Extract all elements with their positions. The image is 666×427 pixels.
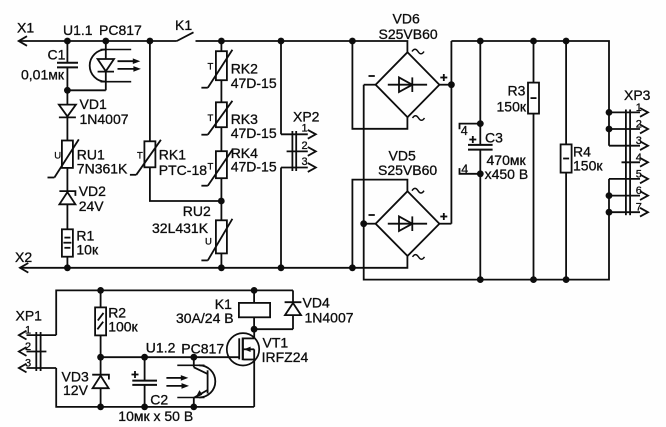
svg-text:100к: 100к bbox=[108, 319, 138, 335]
node: R4 minus bus junction bbox=[563, 276, 570, 283]
thermistor RK4 bbox=[201, 127, 232, 186]
node: LED anode junction bbox=[102, 38, 109, 45]
node X2 arrow bbox=[20, 263, 28, 273]
varistor RU1 bbox=[48, 139, 79, 177]
thermistor RK1 bbox=[130, 41, 221, 201]
svg-text:2: 2 bbox=[636, 119, 642, 131]
svg-text:1: 1 bbox=[302, 123, 308, 135]
wire: VD6 minus to VD5 minus bbox=[364, 85, 376, 224]
connector XP1 bbox=[19, 331, 56, 373]
svg-text:C1: C1 bbox=[48, 47, 66, 63]
transistor VT1 IRFZ24 bbox=[227, 329, 259, 407]
svg-text:VD5: VD5 bbox=[389, 148, 416, 164]
svg-text:47D-15: 47D-15 bbox=[231, 75, 277, 91]
svg-text:6: 6 bbox=[636, 185, 642, 197]
svg-text:VD4: VD4 bbox=[303, 295, 330, 311]
svg-text:2: 2 bbox=[25, 341, 31, 353]
wire: RK4 to RU2 node bbox=[220, 178, 222, 220]
node: emitter bottom rail junction bbox=[190, 404, 197, 411]
svg-text:4: 4 bbox=[636, 152, 642, 164]
svg-text:S25VB60: S25VB60 bbox=[379, 26, 438, 42]
svg-text:PC817: PC817 bbox=[181, 341, 224, 357]
svg-text:U1.1: U1.1 bbox=[63, 22, 93, 38]
connector XP3 bbox=[609, 108, 648, 217]
node: VD6 bypass junction bbox=[349, 38, 356, 45]
svg-text:C2: C2 bbox=[150, 392, 168, 408]
node: R1 bottom rail junction bbox=[64, 264, 71, 271]
svg-text:1N4007: 1N4007 bbox=[305, 310, 354, 326]
node: C3 top rail junction bbox=[477, 38, 484, 45]
node: XP3 pin1 junction bbox=[606, 109, 613, 116]
svg-text:U: U bbox=[54, 151, 61, 162]
svg-text:3: 3 bbox=[636, 135, 642, 147]
wire: top mains rail left segment (X1 to K1) bbox=[19, 40, 177, 42]
svg-text:1: 1 bbox=[636, 102, 642, 114]
svg-text:PTC-18: PTC-18 bbox=[159, 162, 207, 178]
svg-text:7N361K: 7N361K bbox=[77, 161, 128, 177]
svg-text:PC817: PC817 bbox=[99, 22, 142, 38]
svg-text:1: 1 bbox=[25, 325, 31, 337]
bridge rectifier VD5 bbox=[369, 188, 448, 259]
switch K1 blade bbox=[177, 32, 194, 41]
node: XP2 bottom rail junction bbox=[278, 264, 285, 271]
wire: VD6 plus stub bbox=[439, 84, 451, 86]
resistor R2 bbox=[95, 290, 106, 357]
wire: VD5 plus stub bbox=[439, 223, 451, 225]
svg-text:T: T bbox=[137, 151, 143, 162]
connector XP3 pin numbers bbox=[636, 102, 642, 214]
node: C1 top junction bbox=[64, 38, 71, 45]
node: R3 top rail junction bbox=[530, 38, 537, 45]
wire: minus bus bbox=[364, 179, 609, 280]
svg-text:T: T bbox=[208, 162, 214, 173]
varistor RU2 bbox=[201, 219, 232, 268]
svg-text:10мк x 50 В: 10мк x 50 В bbox=[118, 408, 193, 424]
svg-text:U: U bbox=[205, 237, 212, 248]
node: RK4-RU2 junction bbox=[218, 198, 225, 205]
wire: RU1 to VD2 bbox=[66, 168, 68, 191]
node: XP3 pin2 junction bbox=[606, 126, 613, 133]
connector XP1 pin numbers bbox=[25, 325, 31, 370]
relay coil K1 bbox=[239, 290, 270, 329]
svg-text:S25VB60: S25VB60 bbox=[378, 162, 437, 178]
svg-text:150к: 150к bbox=[573, 158, 603, 174]
zener diode VD2 bbox=[59, 191, 75, 229]
node: RK2 top junction bbox=[218, 38, 225, 45]
svg-text:5: 5 bbox=[636, 168, 642, 180]
diode VD1 bbox=[59, 90, 76, 140]
wire: bottom mains rail (X2) bbox=[20, 256, 408, 268]
svg-text:IRFZ24: IRFZ24 bbox=[262, 349, 309, 365]
node: C2 bottom rail junction bbox=[141, 404, 148, 411]
svg-text:VD6: VD6 bbox=[393, 11, 420, 27]
wire: mains L bypass to VD6 bottom AC terminal bbox=[352, 41, 407, 129]
node: R4 top rail junction bbox=[563, 38, 570, 45]
node: R2-VD3 gate junction bbox=[97, 354, 104, 361]
wire: mains N branch to VD5 top AC terminal bbox=[352, 180, 407, 268]
node: C1 bottom junction bbox=[64, 87, 71, 94]
node: XP3 pin7 junction bbox=[606, 209, 613, 216]
thermistor RK3 bbox=[201, 80, 232, 135]
resistor R3 bbox=[528, 41, 539, 280]
node: XP2 top junction bbox=[278, 38, 285, 45]
wire: plus bus vertical bbox=[450, 41, 452, 224]
node: relay-VD4-drain junction bbox=[251, 326, 258, 333]
node: C3 minus bus junction bbox=[477, 276, 484, 283]
svg-text:2: 2 bbox=[302, 140, 308, 152]
svg-text:12V: 12V bbox=[63, 382, 89, 398]
node: VD5 minus junction bbox=[360, 220, 367, 227]
connector XP2 bbox=[281, 41, 316, 268]
svg-text:47D-15: 47D-15 bbox=[231, 159, 277, 175]
node: C2 top junction bbox=[141, 354, 148, 361]
svg-text:C3: C3 bbox=[485, 130, 503, 146]
wire: gate node line bbox=[101, 356, 240, 358]
node: RK1 top junction bbox=[147, 38, 154, 45]
svg-text:XP3: XP3 bbox=[624, 87, 651, 103]
node: RU2 bottom rail junction bbox=[218, 264, 225, 271]
svg-text:1N4007: 1N4007 bbox=[80, 111, 129, 127]
node: VD5 AC rail junction bbox=[349, 264, 356, 271]
zener diode VD3 bbox=[92, 357, 109, 407]
svg-text:7: 7 bbox=[636, 202, 642, 214]
svg-text:10к: 10к bbox=[76, 242, 99, 258]
node: phototransistor collector junction bbox=[190, 354, 197, 361]
svg-text:U1.2: U1.2 bbox=[146, 340, 176, 356]
resistor R1 bbox=[62, 229, 73, 267]
capacitor C1 bbox=[57, 41, 78, 90]
resistor R4 bbox=[561, 41, 572, 280]
svg-text:3: 3 bbox=[25, 357, 31, 369]
svg-text:XP1: XP1 bbox=[16, 308, 43, 324]
svg-text:32L431K: 32L431K bbox=[152, 220, 209, 236]
svg-text:K1: K1 bbox=[175, 17, 192, 33]
wire: VD5 minus stub bbox=[364, 223, 376, 225]
wire: plus rail to XP3 bbox=[451, 41, 609, 146]
svg-text:3: 3 bbox=[302, 156, 308, 168]
thermistor RK2 bbox=[201, 41, 232, 88]
svg-text:RU2: RU2 bbox=[183, 203, 211, 219]
svg-text:X2: X2 bbox=[15, 249, 32, 265]
optocoupler U1.1 PC817 LED side bbox=[90, 41, 141, 90]
node: VD3 bottom rail junction bbox=[97, 404, 104, 411]
svg-text:VD1: VD1 bbox=[80, 96, 107, 112]
wire: top mains rail right of K1 to VD6 top bbox=[196, 41, 408, 52]
bridge rectifier VD6 bbox=[369, 49, 448, 120]
svg-text:24V: 24V bbox=[79, 198, 105, 214]
optocoupler U1.2 PC817 phototransistor side bbox=[166, 357, 215, 407]
node: R2 top junction bbox=[97, 287, 104, 294]
svg-text:T: T bbox=[208, 113, 214, 124]
svg-text:х450 В: х450 В bbox=[485, 166, 529, 182]
wire: relay bottom to VD4 bbox=[254, 328, 293, 330]
wire: XP1 pin1 riser and relay supply rail bbox=[56, 290, 293, 335]
svg-text:T: T bbox=[208, 62, 214, 73]
node: VD6 plus junction bbox=[448, 81, 455, 88]
svg-text:30A/24 В: 30A/24 В bbox=[176, 310, 234, 326]
wire: XP1 pin3 riser and lower ground rail bbox=[56, 368, 254, 407]
svg-text:VD2: VD2 bbox=[79, 183, 106, 199]
diode VD4 bbox=[285, 290, 302, 329]
node: relay K1 top junction bbox=[251, 287, 258, 294]
node: XP3 pin6 junction bbox=[606, 192, 613, 199]
node: C3 pin4 bottom junction bbox=[477, 170, 484, 177]
svg-text:X1: X1 bbox=[17, 20, 34, 36]
wire: C1 bottom to LED cathode bbox=[67, 89, 105, 91]
svg-text:150к: 150к bbox=[497, 99, 527, 115]
node X1 arrow bbox=[19, 36, 27, 46]
svg-text:RK1: RK1 bbox=[159, 147, 186, 163]
node: R3 minus bus junction bbox=[530, 276, 537, 283]
capacitor C3 bbox=[460, 41, 493, 280]
svg-text:4: 4 bbox=[461, 124, 468, 138]
svg-text:R3: R3 bbox=[508, 83, 526, 99]
capacitor C2 bbox=[132, 357, 158, 407]
svg-text:4: 4 bbox=[461, 163, 468, 177]
node: C3 pin4 top junction bbox=[477, 120, 484, 127]
svg-text:47D-15: 47D-15 bbox=[231, 125, 277, 141]
svg-text:0,01мк: 0,01мк bbox=[21, 67, 65, 83]
